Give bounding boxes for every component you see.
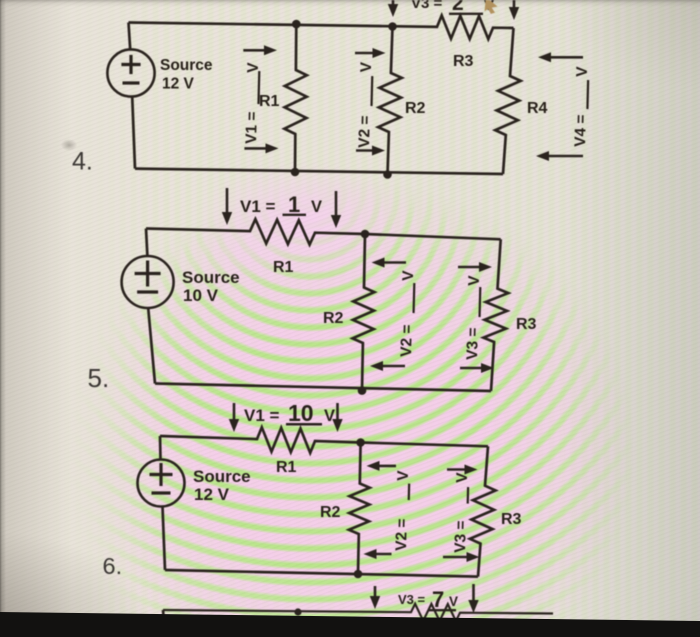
svg-text:R1: R1 bbox=[273, 259, 294, 276]
svg-text:V: V bbox=[324, 407, 335, 425]
svg-text:V3 =: V3 = bbox=[452, 520, 470, 553]
svg-text:R2: R2 bbox=[405, 100, 426, 117]
svg-text:V: V bbox=[400, 270, 417, 281]
svg-text:V3 =: V3 = bbox=[411, 0, 443, 12]
svg-text:7: 7 bbox=[432, 587, 444, 612]
svg-text:R3: R3 bbox=[516, 316, 537, 333]
svg-text:V: V bbox=[449, 594, 458, 609]
svg-text:10: 10 bbox=[288, 400, 314, 426]
svg-text:5.: 5. bbox=[88, 363, 110, 393]
svg-text:V: V bbox=[311, 198, 322, 216]
svg-text:R3: R3 bbox=[501, 511, 522, 528]
svg-text:V1 =: V1 = bbox=[240, 197, 276, 216]
svg-text:R2: R2 bbox=[320, 504, 341, 521]
svg-text:R3: R3 bbox=[453, 53, 474, 70]
svg-text:Source: Source bbox=[193, 467, 251, 486]
svg-text:V1 =: V1 = bbox=[243, 111, 261, 144]
svg-text:V: V bbox=[245, 62, 262, 73]
svg-text:12 V: 12 V bbox=[194, 485, 230, 504]
svg-text:R4: R4 bbox=[527, 100, 548, 117]
svg-text:12 V: 12 V bbox=[162, 76, 195, 93]
svg-text:6.: 6. bbox=[103, 553, 123, 579]
svg-text:R1: R1 bbox=[259, 93, 280, 110]
svg-text:4.: 4. bbox=[72, 148, 93, 176]
svg-text:R2: R2 bbox=[323, 310, 344, 327]
svg-text:1: 1 bbox=[288, 192, 300, 217]
svg-text:V2 =: V2 = bbox=[356, 115, 374, 148]
svg-text:V: V bbox=[454, 472, 471, 483]
svg-text:V: V bbox=[466, 275, 483, 286]
svg-text:V1 =: V1 = bbox=[244, 406, 280, 425]
svg-text:V: V bbox=[358, 61, 375, 72]
svg-text:V: V bbox=[395, 470, 412, 481]
svg-text:V3 =: V3 = bbox=[398, 592, 426, 607]
svg-text:V3 =: V3 = bbox=[464, 327, 482, 360]
svg-text:V2 =: V2 = bbox=[393, 518, 411, 551]
svg-text:V: V bbox=[574, 66, 591, 77]
svg-text:Source: Source bbox=[182, 268, 240, 287]
svg-text:R1: R1 bbox=[276, 459, 297, 476]
svg-text:10 V: 10 V bbox=[183, 286, 219, 305]
svg-text:V2 =: V2 = bbox=[398, 324, 416, 357]
svg-text:Source: Source bbox=[160, 57, 213, 74]
svg-text:V4 =: V4 = bbox=[572, 114, 590, 147]
